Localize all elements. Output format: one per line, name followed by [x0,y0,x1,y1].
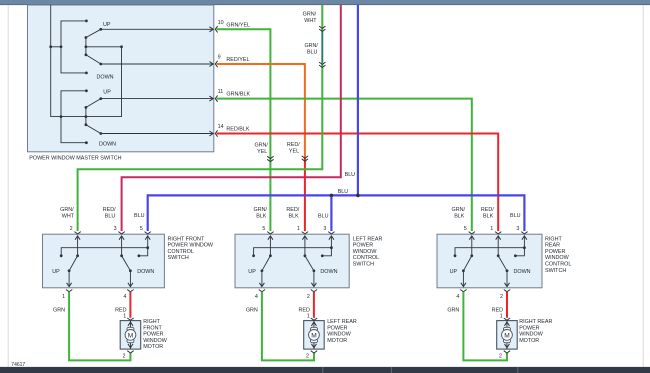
svg-text:GRN: GRN [447,307,459,313]
pin 4 right rear bottom connector [460,290,466,292]
pin 4 right rear internal arrow down [461,271,466,287]
label pin number 5 right rear [464,226,467,232]
svg-text:2: 2 [500,294,503,300]
svg-text:UP: UP [52,269,60,275]
svg-text:BLU: BLU [134,213,145,219]
wire RED right rear switch to motor [506,292,508,318]
label GRN/WHT above right front pin 2 [60,207,75,220]
label right rear switch title [545,236,571,273]
svg-text:UP: UP [450,269,458,275]
label motor left rear title [327,319,357,344]
label pin 1 motor right front [123,314,126,320]
label GRN right rear [447,307,459,313]
connector inline GRN/YEL to GRN/BLK [267,156,273,161]
label UP left rear [248,269,256,275]
label pin number 9 [218,55,221,61]
pin 14 master switch connector [215,130,217,136]
pin 1 motor left rear connector [311,318,317,320]
label UP section2 [103,89,111,95]
switch arm section2 DOWN [86,125,102,135]
pin 9 master switch connector [215,61,217,67]
svg-text:DOWN: DOWN [514,269,531,275]
svg-text:1: 1 [500,314,503,320]
svg-text:3: 3 [114,226,117,232]
svg-text:POWER WINDOW: POWER WINDOW [168,243,214,249]
node BLU junction left [330,194,334,198]
label right front switch title [168,236,214,261]
svg-text:WINDOW: WINDOW [519,332,544,338]
svg-text:GRN/: GRN/ [452,207,466,213]
label pin 2 motor right front [122,353,125,359]
label pin number 3 left rear [323,226,326,232]
svg-text:UP: UP [248,269,256,275]
pin 4 right front bottom connector [127,290,133,292]
label M motor left rear [311,332,317,339]
right page margin line [642,5,644,367]
svg-text:MOTOR: MOTOR [519,338,539,344]
switch master UP/DOWN section 1 bracket [61,21,86,73]
label pin number 14 [218,124,224,130]
node right rear bus left contact [454,254,457,257]
switch arm right front UP [68,256,78,272]
pin 3 left rear internal arrow [329,236,334,248]
svg-text:BLU: BLU [307,50,318,56]
svg-text:POWER: POWER [143,332,163,338]
label RED left rear [299,307,310,313]
label wire GRN/BLK [226,92,250,98]
right front switch box [43,234,165,288]
svg-text:YEL: YEL [289,149,299,155]
wire GRN right front switch to motor [69,292,130,361]
label wire RED/YEL [226,57,249,63]
label pin number 4 right rear bottom [456,294,459,300]
svg-text:DOWN: DOWN [320,269,337,275]
pin 2 right rear bottom connector [504,290,510,292]
node right front hook contact [138,254,141,257]
wire master pin 11 internal [101,96,213,101]
svg-text:WHT: WHT [62,213,75,219]
svg-text:2: 2 [122,353,125,359]
wire GRN/BLU segment [321,32,323,63]
label left rear switch title [353,236,383,267]
svg-text:POWER: POWER [519,325,539,331]
svg-text:FRONT: FRONT [143,325,162,331]
switch arm section2 UP [86,97,102,107]
motor right front box [120,321,141,350]
svg-text:3: 3 [323,226,326,232]
svg-text:4: 4 [456,294,459,300]
pin 1 motor right rear connector [504,318,510,320]
label pin number 1 right rear [490,226,493,232]
svg-text:GRN/BLK: GRN/BLK [226,92,250,98]
wire GRN right rear switch to motor [463,292,507,361]
pin 2 right front connector [74,232,80,234]
svg-text:BLU: BLU [338,189,349,195]
svg-text:RIGHT: RIGHT [545,236,562,242]
label motor right rear title [519,319,552,344]
label BLU above left rear pin 3 [318,213,329,219]
svg-text:M: M [504,332,510,339]
label pin number 2 left rear bottom [307,294,310,300]
svg-text:BLK: BLK [454,213,465,219]
svg-text:SWITCH: SWITCH [168,255,189,261]
svg-text:BLU: BLU [318,213,329,219]
label DOWN right front [137,269,154,275]
svg-text:WINDOW: WINDOW [143,338,168,344]
wire left rear internal bus [254,248,332,256]
pin 3 right rear internal arrow [522,236,527,248]
motor right front internal armature [125,321,136,350]
pin 4 left rear bottom connector [259,290,265,292]
svg-text:WHT: WHT [304,18,317,24]
pin 3 right rear connector [521,232,527,234]
right rear switch box [437,234,542,288]
svg-text:1: 1 [62,294,65,300]
node right front bus left contact [60,254,63,257]
pin 4 left rear internal arrow down [259,271,264,287]
pin 3 left rear connector [328,232,334,234]
svg-text:GRN/: GRN/ [254,207,268,213]
wire left rear bus hook to down contact [322,248,331,256]
motor right rear internal armature [502,321,513,350]
label DOWN right rear [514,269,531,275]
wire RED/BLK pin14 to right rear switch pin 1 [217,134,499,232]
switch arm section1 UP [86,28,102,38]
node bracket2 top contact [85,89,88,92]
label pin number 4 left rear bottom [255,294,258,300]
wire RED right front switch to motor [129,292,131,318]
wire RED left rear switch to motor [313,292,315,318]
label RED/BLK above left rear pin 1 [286,207,299,220]
wire master pin 14 internal [101,131,213,136]
svg-text:BLU: BLU [510,213,521,219]
svg-text:4: 4 [255,294,258,300]
label pin 1 motor left rear [307,314,310,320]
label BLU above right front pin 5 [134,213,145,219]
motor right rear box [497,321,518,350]
label DOWN section2 [99,142,116,148]
node right front bus pin junction [146,246,149,249]
label BLU at bus [338,189,349,195]
svg-text:2: 2 [307,294,310,300]
switch arm left rear UP [261,256,271,272]
pin 2 right front internal arrow [75,236,80,257]
label pin 2 motor right rear [499,353,502,359]
svg-text:WINDOW: WINDOW [327,332,352,338]
label UP right rear [450,269,458,275]
svg-text:RED/: RED/ [103,207,116,213]
wire RED/BLK connector to left rear switch pin 1 [304,158,306,231]
svg-text:LEFT REAR: LEFT REAR [327,319,357,325]
svg-text:10: 10 [218,20,224,26]
pin 2 motor right rear connector [504,351,510,353]
label pin number 5 right front [140,226,143,232]
svg-text:POWER WINDOW MASTER SWITCH: POWER WINDOW MASTER SWITCH [29,155,121,161]
label M motor right rear [504,332,510,339]
pin 5 right front internal arrow [145,236,150,248]
pin 11 master switch connector [215,95,217,101]
label BLU above right rear pin 3 [510,213,521,219]
switch arm right rear UP [462,256,471,272]
svg-text:MOTOR: MOTOR [327,338,347,344]
label wire RED/BLK [226,127,249,133]
svg-text:RED/BLK: RED/BLK [226,127,249,133]
pin 1 right rear connector [495,232,501,234]
svg-text:11: 11 [218,89,224,95]
label pin 2 motor left rear [306,353,309,359]
node left rear bus left contact [252,254,255,257]
svg-text:SWITCH: SWITCH [545,268,566,274]
svg-text:RED/YEL: RED/YEL [226,57,249,63]
pin 1 left rear internal arrow [302,236,307,257]
svg-text:POWER: POWER [545,249,565,255]
node section2 middle row junctions [60,115,88,118]
wire GRN/YEL pin10 to left rear switch pin 5 [217,29,271,231]
label GRN left rear [246,307,258,313]
wire master switch supply bus (left vertical with corner to lower section) [51,5,122,117]
connector inline GRN/WHT upper [319,26,325,31]
label UP right front [52,269,60,275]
svg-text:3: 3 [516,226,519,232]
svg-text:2: 2 [70,226,73,232]
svg-text:M: M [311,332,317,339]
svg-text:BLK: BLK [256,213,267,219]
top toolbar bar [0,0,650,5]
label RED/BLK above right rear pin 1 [481,207,494,220]
svg-text:GRN: GRN [53,307,65,313]
pin 5 right rear connector [469,232,475,234]
label pin number 2 right front [70,226,73,232]
switch arm right rear DOWN [499,256,509,272]
pin 1 right front internal arrow down [67,271,72,287]
wire RED/YEL pin9 to connector [217,64,305,158]
label UP section1 [103,22,111,28]
label pin number 1 left rear [297,226,300,232]
bottom status bar [0,367,650,373]
pin 5 right front connector [145,232,151,234]
wire GRN left rear switch to motor [262,292,314,361]
svg-text:CONTROL: CONTROL [168,249,194,255]
connector inline RED/YEL to RED/BLK [302,156,308,161]
svg-text:YEL: YEL [257,149,267,155]
wire link to upper bracket [51,46,61,48]
svg-text:POWER: POWER [327,325,347,331]
svg-text:1: 1 [490,226,493,232]
svg-text:GRN/YEL: GRN/YEL [226,22,250,28]
svg-text:M: M [128,332,134,339]
svg-text:CONTROL: CONTROL [545,262,571,268]
svg-text:WINDOW: WINDOW [545,255,570,261]
power window master switch box [28,5,214,152]
wire right front internal bus [61,248,148,256]
label M motor right front [128,332,134,339]
wire right front bus hook to down contact [139,248,148,256]
left rear switch box [235,234,349,288]
label GRN/BLK above right rear pin 5 [452,207,466,220]
node bracket2 bottom contact [85,141,88,144]
label POWER WINDOW MASTER SWITCH [29,155,121,161]
label RED/YEL [287,142,300,155]
label DOWN left rear [320,269,337,275]
pin 4 right front internal arrow down [128,271,133,287]
pin 1 right rear internal arrow [496,236,501,257]
diagram number 74617 [11,362,25,368]
label wire GRN/YEL [226,22,250,28]
wire RED/BLU from top feed to right front switch pin 3 [122,5,341,231]
wire BLU drop to left rear pin 3 [330,195,332,231]
switch section1 common column [85,36,88,56]
switch arm left rear DOWN [305,256,315,272]
node left rear hook contact [321,254,324,257]
label pin number 1 right front bottom [62,294,65,300]
label GRN/BLU [304,43,318,56]
node bracket1 top contact [60,20,88,49]
pin 5 right rear internal arrow [469,236,474,257]
svg-text:RED: RED [299,307,310,313]
pin 1 motor right front connector [127,318,133,320]
label DOWN section1 [97,74,114,80]
svg-text:GRN/: GRN/ [304,43,318,49]
node right rear bus pin junction [523,246,526,249]
label motor right front title [143,319,168,350]
label pin 1 motor right rear [500,314,503,320]
svg-text:RIGHT FRONT: RIGHT FRONT [168,236,205,242]
pin 2 motor right front connector [127,351,133,353]
svg-text:RED: RED [115,307,126,313]
label pin number 11 [218,89,224,95]
svg-text:CONTROL: CONTROL [353,255,379,261]
label GRN/BLK above left rear pin 5 [254,207,268,220]
wire BLU feed from top [357,5,359,195]
wire master pin 10 internal [101,27,213,32]
pin 5 left rear internal arrow [268,236,273,257]
wire BLU bus horizontal [148,195,525,231]
svg-text:9: 9 [218,55,221,61]
motor left rear box [304,321,325,350]
svg-text:1: 1 [307,314,310,320]
svg-text:RIGHT: RIGHT [143,319,160,325]
svg-text:UP: UP [103,89,111,95]
switch section2 common column [85,106,88,126]
svg-text:BLU: BLU [105,213,116,219]
svg-text:GRN/: GRN/ [303,12,317,18]
svg-text:RED/: RED/ [286,207,299,213]
svg-text:DOWN: DOWN [99,142,116,148]
svg-text:SWITCH: SWITCH [353,262,374,268]
label pin number 5 left rear [262,226,265,232]
label pin number 10 [218,20,224,26]
wire master pin 9 internal [101,62,213,67]
label RED/BLU above right front pin 3 [103,207,116,220]
svg-text:BLK: BLK [288,213,299,219]
pin 1 right front bottom connector [66,290,72,292]
pin 5 left rear connector [267,232,273,234]
label GRN/WHT top [303,12,318,25]
svg-text:BLU: BLU [345,172,356,178]
svg-text:RED: RED [492,307,503,313]
node master supply junction upper [49,45,52,48]
pin 2 right rear internal arrow down [505,271,510,287]
label RED right rear [492,307,503,313]
svg-text:LEFT REAR: LEFT REAR [353,236,383,242]
pin 2 left rear bottom connector [311,290,317,292]
svg-text:5: 5 [262,226,265,232]
pin 2 motor left rear connector [311,351,317,353]
wire right rear bus hook to down contact [515,248,524,256]
label GRN right front [53,307,65,313]
wire right rear internal bus [455,248,524,256]
wire section1 common to inter-section vertical [86,45,123,48]
svg-text:POWER: POWER [353,243,373,249]
label pin number 3 right front [114,226,117,232]
label pin number 3 right rear [516,226,519,232]
svg-text:GRN/: GRN/ [60,207,74,213]
svg-text:RED/: RED/ [481,207,494,213]
svg-text:WINDOW: WINDOW [353,249,378,255]
pin 10 master switch connector [215,26,217,32]
label pin number 2 right rear bottom [500,294,503,300]
svg-text:MOTOR: MOTOR [143,344,163,350]
pin 1 left rear connector [302,232,308,234]
svg-text:BLK: BLK [483,213,494,219]
label RED right front [115,307,126,313]
wire GRN/BLK pin11 to right rear switch pin 5 [217,99,472,231]
label pin number 4 right front bottom [123,294,126,300]
switch master section 2 bracket [61,91,86,143]
pin 3 right front connector [118,232,124,234]
switch arm section1 DOWN [86,55,102,66]
svg-text:RIGHT REAR: RIGHT REAR [519,319,552,325]
node right rear hook contact [514,254,517,257]
svg-text:REAR: REAR [545,243,560,249]
svg-text:5: 5 [140,226,143,232]
svg-text:4: 4 [123,294,126,300]
label GRN/YEL [254,143,268,156]
motor left rear internal armature [309,321,320,350]
svg-text:DOWN: DOWN [97,74,114,80]
node bracket1 bottom contact [85,72,88,75]
svg-text:14: 14 [218,124,224,130]
left page margin line [7,5,9,367]
svg-text:2: 2 [499,353,502,359]
label BLU at feed [345,172,356,178]
svg-text:UP: UP [103,22,111,28]
svg-text:GRN/: GRN/ [254,143,268,149]
svg-text:2: 2 [306,353,309,359]
svg-text:1: 1 [123,314,126,320]
node left rear bus pin junction [330,246,333,249]
node BLU junction right [356,194,360,198]
svg-text:5: 5 [464,226,467,232]
switch arm right front DOWN [122,256,132,272]
svg-text:1: 1 [297,226,300,232]
pin 3 right front internal arrow [119,236,124,257]
connector inline GRN/BLU lower [319,62,325,67]
svg-text:RED/: RED/ [287,142,300,148]
svg-text:DOWN: DOWN [137,269,154,275]
pin 2 left rear internal arrow down [311,271,316,287]
svg-text:GRN: GRN [246,307,258,313]
wire GRN/WHT from top feed to right front switch pin 2 [78,5,323,231]
